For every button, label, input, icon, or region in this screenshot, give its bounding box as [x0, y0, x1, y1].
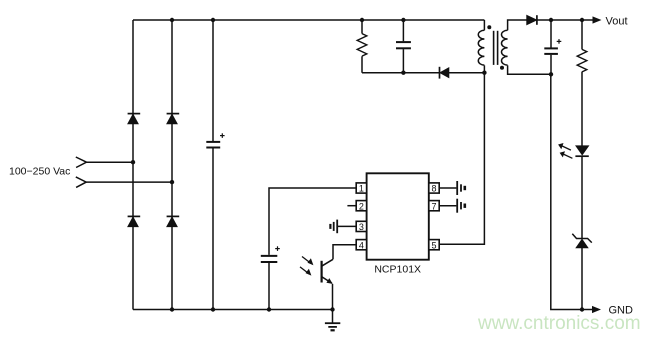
wire pin 2 stub: [347, 205, 356, 207]
capacitor C3 output top wire: [550, 20, 552, 48]
svg-text:100−250 Vac: 100−250 Vac: [9, 166, 70, 178]
wire feedback divider top: [581, 20, 583, 49]
node primary bottom: [482, 71, 486, 75]
wire AC input line 2: [86, 181, 172, 183]
node Vout at R2: [580, 18, 584, 22]
wire snubber capacitor branch: [402, 20, 404, 73]
wire pin 8 bypass: [439, 187, 456, 189]
wire C3 bottom: [550, 55, 552, 75]
plus sign of C6: [275, 246, 280, 251]
wire secondary top to Vout: [537, 19, 594, 21]
pin 8 box: [429, 183, 439, 194]
capacitor C3 output: [544, 48, 558, 54]
optocoupler received light arrows: [300, 257, 313, 276]
node top rail at bulk cap: [211, 18, 215, 22]
plus sign of C1: [220, 133, 225, 138]
diode D4 bridge lower-right: [167, 216, 180, 226]
wire emitter to bottom rail: [332, 284, 334, 310]
svg-text:NCP101X: NCP101X: [374, 264, 421, 276]
pin 4 box: [356, 240, 366, 251]
resistor R1 snubber: [357, 34, 367, 57]
wire snubber bottom right: [449, 72, 485, 74]
Vout arrow head: [593, 16, 602, 23]
IC U1 NCP101X body: [367, 173, 429, 259]
node secondary bottom at C3: [549, 72, 553, 76]
wire pin 4 to optocoupler collector: [333, 245, 356, 260]
ground symbol at pin 3: [330, 220, 337, 234]
wire snubber bottom left: [362, 72, 439, 74]
input terminal chevron 1: [76, 157, 87, 168]
wire top rail primary side: [133, 19, 484, 21]
svg-text:www.cntronics.com: www.cntronics.com: [477, 313, 641, 334]
svg-text:Vout: Vout: [606, 15, 628, 27]
diode D2 bridge upper-right: [167, 114, 180, 124]
wire pin 3 to ground: [338, 225, 356, 227]
node top rail at snubber cap: [401, 18, 405, 22]
node snubber bottom at cap: [401, 71, 405, 75]
optocoupler LED: [575, 146, 588, 156]
node AC line 1 junction: [131, 160, 135, 164]
capacitor C4 with ground on pin 8: [457, 181, 465, 195]
wire LED to zener: [581, 157, 583, 238]
wire AC input line 1: [87, 161, 134, 163]
wire left bridge leg: [132, 20, 134, 310]
diode D6 output rectifier: [527, 15, 537, 25]
pin 5 box: [429, 240, 439, 251]
GND arrow head: [592, 306, 601, 313]
wire bottom rail primary side: [133, 309, 333, 311]
optocoupler LED emission arrows: [558, 143, 572, 158]
wire pin 1 to Vcc capacitor: [269, 188, 356, 255]
diode D1 bridge upper-left: [128, 114, 141, 124]
capacitor C5 with ground on pin 7: [457, 199, 465, 213]
node bottom rail at C6: [267, 307, 271, 311]
diode D3 bridge lower-left: [128, 216, 141, 226]
wire R2 to LED: [581, 72, 583, 146]
wire zener to ground rail: [581, 248, 583, 310]
phase dot primary: [487, 25, 491, 29]
svg-text:8: 8: [431, 184, 436, 194]
wire right bridge leg: [171, 20, 173, 310]
plus sign of C3: [557, 39, 562, 44]
pin 1 box: [356, 183, 366, 194]
wire secondary ground rail: [551, 74, 582, 309]
svg-text:4: 4: [359, 240, 364, 250]
pin 3 box: [356, 221, 366, 232]
capacitor C6 Vcc: [261, 256, 278, 262]
node Vout at C3: [549, 18, 553, 22]
node bottom rail at ground: [330, 307, 334, 311]
input terminal chevron 2: [76, 177, 86, 188]
pin 2 box: [356, 201, 366, 212]
svg-text:2: 2: [359, 201, 364, 211]
wire GND arrow shaft: [582, 309, 593, 311]
wire bottom rail to primary ground: [332, 310, 334, 323]
capacitor C2 snubber: [396, 42, 411, 48]
wire C6 bottom: [268, 263, 270, 310]
phase dot secondary: [500, 66, 504, 70]
node bottom rail at right bridge leg: [170, 307, 174, 311]
pin 7 box: [429, 201, 439, 212]
node top rail at right bridge leg: [170, 18, 174, 22]
wire secondary bottom: [508, 65, 551, 74]
zener diode Z1: [572, 234, 592, 248]
svg-text:5: 5: [431, 240, 436, 250]
wire primary top: [483, 20, 485, 30]
ground symbol primary side: [325, 323, 340, 330]
capacitor C1 bulk electrolytic: [206, 142, 220, 148]
svg-text:3: 3: [359, 222, 364, 232]
wire snubber resistor branch: [361, 20, 363, 73]
resistor R2 feedback: [577, 49, 587, 72]
wire secondary top: [508, 20, 527, 30]
node bottom rail at bulk cap: [211, 307, 215, 311]
node top rail at snubber resistor: [360, 18, 364, 22]
transformer T1 core bars: [494, 31, 498, 65]
wire bulk capacitor branch top: [212, 20, 214, 141]
transformer T1 primary winding: [478, 30, 484, 65]
svg-text:1: 1: [359, 184, 364, 194]
node GND at zener: [580, 307, 584, 311]
wire bulk capacitor branch bottom: [212, 148, 214, 309]
transformer T1 secondary winding: [502, 30, 508, 65]
diode D5 clamp: [440, 67, 449, 79]
svg-text:7: 7: [431, 201, 436, 211]
node AC line 2 junction: [170, 180, 174, 184]
wire pin 7 bypass: [439, 205, 456, 207]
optocoupler transistor Q1: [322, 259, 333, 284]
wire primary bottom to pin 5: [439, 65, 484, 244]
